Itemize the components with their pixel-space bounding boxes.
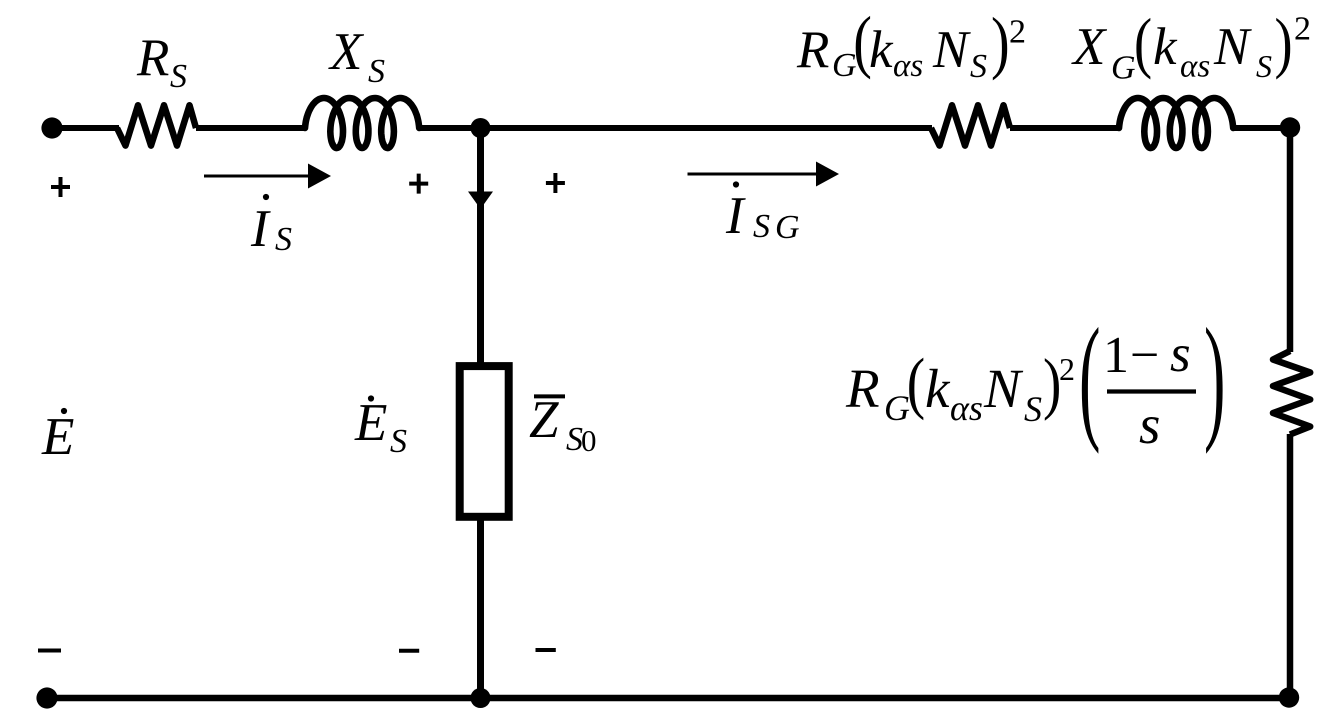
label Zbar_S0 (529, 391, 597, 458)
fraction numerator 1-s (1103, 325, 1191, 384)
wire vertical resistor to bottom-right (1287, 434, 1294, 698)
svg-text:αs: αs (950, 388, 983, 428)
svg-text:(: ( (907, 344, 925, 421)
svg-text:): ) (991, 4, 1010, 81)
wire R_S to X_S (196, 125, 306, 131)
svg-text:G: G (1111, 50, 1136, 87)
wire node A to R_G (480, 125, 932, 131)
arrow down on shunt branch (468, 192, 493, 210)
node bottom-middle (471, 688, 491, 708)
node bottom-right (1279, 687, 1299, 707)
svg-text:S: S (368, 53, 385, 90)
plus sign left port (51, 177, 70, 197)
svg-text:S: S (753, 208, 770, 245)
fraction bar (1107, 389, 1196, 393)
svg-text:S: S (970, 48, 987, 85)
svg-text:k: k (869, 21, 894, 79)
svg-text:): ) (1204, 299, 1225, 454)
svg-text:S: S (275, 221, 292, 258)
big right paren of (1-s)/s (1204, 299, 1225, 454)
svg-text:N: N (932, 21, 971, 79)
label I_S (250, 194, 292, 258)
svg-text:S: S (1256, 48, 1272, 84)
wire R_G to X_G (1010, 125, 1120, 131)
svg-text:S: S (390, 423, 407, 460)
svg-text:k: k (925, 358, 951, 419)
fraction denominator s (1139, 394, 1160, 455)
svg-text:k: k (1153, 18, 1178, 76)
terminal node bottom-left (36, 687, 57, 708)
svg-text:R: R (796, 21, 829, 79)
bottom wire (46, 695, 1290, 702)
svg-text:2: 2 (1059, 351, 1075, 387)
svg-text:E: E (41, 408, 74, 466)
label R_G(k_as N_S)^2 (796, 3, 1026, 85)
svg-text:(: ( (1079, 299, 1100, 454)
svg-text:s: s (1170, 325, 1191, 383)
svg-text:S: S (1024, 389, 1042, 429)
svg-text:I: I (250, 200, 271, 258)
node B top-right (1280, 117, 1300, 137)
svg-text:R: R (136, 29, 169, 87)
svg-text:αs: αs (1180, 49, 1210, 85)
wire node B down to vertical resistor (1287, 128, 1294, 352)
svg-text:αs: αs (893, 48, 923, 84)
wire X_G to node B (1233, 125, 1290, 131)
inductor X_G (1119, 98, 1233, 148)
svg-text:Z: Z (529, 391, 559, 449)
current arrow I_SG (688, 162, 840, 187)
svg-text:N: N (983, 358, 1024, 419)
label E_S (354, 394, 407, 460)
big left paren of (1-s)/s (1079, 299, 1100, 454)
svg-text:N: N (1213, 18, 1252, 76)
wire top-left segment (52, 125, 119, 131)
svg-text:(: ( (1134, 5, 1152, 80)
svg-text:X: X (328, 23, 365, 81)
impedance box Z_S0 (460, 366, 509, 517)
inductor X_S (305, 98, 419, 148)
label R_S (136, 29, 187, 95)
svg-text:s: s (1139, 394, 1160, 455)
label R_G(k_as N_S)^2 (1-s)/s (845, 344, 1075, 429)
terminal node top-left (41, 117, 62, 138)
minus sign Z_S0 (536, 648, 556, 652)
svg-text:X: X (1071, 18, 1108, 76)
svg-text:S: S (170, 58, 187, 95)
svg-text:0: 0 (581, 423, 597, 458)
plus sign Z_S0 (546, 173, 565, 193)
label E dot (left) (41, 408, 74, 466)
minus sign left port (38, 649, 61, 653)
label X_S (328, 23, 385, 90)
wire X_S to node A (419, 125, 482, 131)
svg-text:G: G (775, 209, 800, 246)
svg-text:2: 2 (1009, 14, 1026, 51)
wire Z box to bottom (477, 517, 484, 698)
node A junction (471, 118, 491, 138)
svg-text:I: I (725, 187, 746, 245)
svg-text:2: 2 (1294, 11, 1311, 48)
plus sign E_S (409, 174, 428, 194)
svg-text:): ) (1275, 5, 1293, 80)
resistor R_G (931, 105, 1010, 145)
svg-text:−: − (1130, 327, 1159, 384)
svg-text:R: R (845, 358, 880, 419)
wire node A down to Z box (477, 128, 484, 366)
minus sign E_S (399, 649, 419, 653)
svg-text:1: 1 (1103, 327, 1129, 384)
current arrow I_S (204, 164, 331, 189)
label I_SG (725, 181, 800, 246)
svg-text:E: E (354, 394, 387, 452)
resistor R_S (117, 105, 196, 145)
label X_G(k_as N_S)^2 (1071, 5, 1311, 86)
resistor R_G(1-s)/s vertical (1273, 351, 1310, 435)
